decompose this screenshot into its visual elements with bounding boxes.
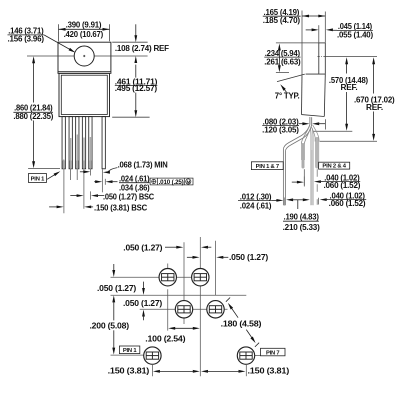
pin7 hole right stick <box>255 355 261 357</box>
extension col2 <box>183 242 185 300</box>
hole centerline (side view) <box>318 56 320 58</box>
svg-text:.150 (3.81) BSC: .150 (3.81) BSC <box>94 203 148 212</box>
row line B (mid reference) <box>111 294 247 296</box>
dimension .200 <box>113 301 115 321</box>
lead 3 (front view) <box>76 117 79 169</box>
svg-text:.010 (.25): .010 (.25) <box>159 180 184 186</box>
extension col4 <box>215 241 217 295</box>
vertical centerline col3 <box>199 237 201 376</box>
hole pin 3 <box>175 301 192 318</box>
svg-text:.156 (3.96): .156 (3.96) <box>8 35 45 44</box>
top line extension (left of tab) <box>276 42 319 44</box>
lead pins (side view, near straight) <box>309 128 312 205</box>
dimension .050 BSC lead pitch <box>70 195 78 197</box>
hole centerline <box>27 55 148 57</box>
PIN 1 & 7 label <box>251 162 283 170</box>
dimension .190/.210 lead span <box>286 198 293 201</box>
lead pins 2&4 (thick gray, behind) <box>315 139 319 166</box>
svg-text:.150 (3.81): .150 (3.81) <box>108 366 150 375</box>
svg-text:.495 (12.57): .495 (12.57) <box>115 84 158 93</box>
side view tab (metal) <box>319 42 326 44</box>
front view body inner molding line <box>61 75 107 114</box>
svg-text:7° TYP.: 7° TYP. <box>275 92 300 101</box>
lead pins 3&5 (side view, middle) <box>302 126 310 161</box>
lead pins 1&7 (side view, most bent) <box>283 125 310 206</box>
hole pin 7 <box>237 347 254 364</box>
dimension .670 REF <box>373 63 375 94</box>
svg-text:PIN 1: PIN 1 <box>123 348 137 354</box>
svg-text:.100 (2.54): .100 (2.54) <box>145 334 186 343</box>
dimension .150 left <box>151 364 153 376</box>
dimension .040/.060 second <box>317 198 319 205</box>
dimension .024/.034 lead width <box>94 181 97 183</box>
svg-text:.880 (22.35): .880 (22.35) <box>13 112 53 121</box>
extension col1 stub above hole <box>167 264 169 270</box>
dimension .100 col1-col3 <box>174 327 195 329</box>
svg-text:.190 (4.83): .190 (4.83) <box>284 213 320 222</box>
extension col1 below hole <box>167 289 169 330</box>
tab/body junction line <box>58 71 111 73</box>
row line A (top row centerline) <box>111 276 209 278</box>
svg-text:PIN 1: PIN 1 <box>31 177 45 183</box>
svg-text:.024 (.61): .024 (.61) <box>240 202 272 211</box>
svg-text:.050 (1.27): .050 (1.27) <box>123 299 163 308</box>
front view body outline <box>59 73 110 116</box>
lead 7 (front view) <box>102 117 105 169</box>
dimension .390/.420 tab width <box>58 24 60 41</box>
svg-text:PIN 1 & 7: PIN 1 & 7 <box>256 164 279 170</box>
svg-text:.034 (.86): .034 (.86) <box>119 183 150 192</box>
dimension .150 BSC <box>49 206 58 208</box>
lead center extension lines below tips <box>63 169 65 213</box>
svg-text:.012 (.30): .012 (.30) <box>240 192 272 201</box>
PIN 2 & 4 label <box>319 162 350 169</box>
svg-text:.060 (1.52): .060 (1.52) <box>329 199 366 208</box>
svg-text:PIN 2 & 4: PIN 2 & 4 <box>322 164 346 170</box>
svg-text:.234 (5.94): .234 (5.94) <box>265 49 301 58</box>
svg-text:.108 (2.74) REF: .108 (2.74) REF <box>115 44 169 53</box>
7-degree draft chamfer line <box>277 74 305 82</box>
hole pin 2 <box>159 269 176 286</box>
svg-text:.050 (1.27): .050 (1.27) <box>97 284 137 293</box>
dimension .234/.261 tab top to body top <box>278 49 280 67</box>
lead 4 (front view) <box>82 117 85 169</box>
dimension .040/.060 first <box>292 181 299 183</box>
svg-text:.185 (4.70): .185 (4.70) <box>263 16 301 25</box>
dimension .050 col3-col4 <box>187 256 194 258</box>
svg-text:.420 (10.67): .420 (10.67) <box>64 30 104 39</box>
PIN 7 label (land) <box>261 348 286 356</box>
row line C (middle row centerline) <box>140 308 228 310</box>
svg-text:.210 (5.33): .210 (5.33) <box>283 223 321 232</box>
lead 5 (front view) <box>89 117 92 169</box>
extension below pins 3&5 <box>303 169 305 185</box>
dimension .180 diagonal <box>226 298 230 302</box>
hole pin 5 <box>207 301 224 318</box>
svg-text:.055 (1.40): .055 (1.40) <box>337 31 374 40</box>
svg-text:.261 (6.63): .261 (6.63) <box>264 58 301 67</box>
svg-text:.050 (1.27) BSC: .050 (1.27) BSC <box>103 193 155 202</box>
svg-text:.060 (1.52): .060 (1.52) <box>324 181 361 190</box>
svg-text:.200 (5.08): .200 (5.08) <box>90 322 130 331</box>
svg-text:.150 (3.81): .150 (3.81) <box>248 366 290 375</box>
mounting hole <box>74 46 94 66</box>
feature control frame <box>150 178 193 185</box>
bottom row line <box>111 354 145 356</box>
hole pin 4 <box>192 269 209 286</box>
svg-text:M: M <box>186 180 190 185</box>
lead bend ref line 2 <box>320 140 377 142</box>
svg-text:.390 (9.91): .390 (9.91) <box>66 21 102 30</box>
dimension .150 right <box>245 364 247 376</box>
svg-text:REF.: REF. <box>366 103 383 112</box>
dimension .461/.495 hole CL to body bottom <box>112 116 149 118</box>
lead stem at body exit <box>309 117 311 125</box>
PIN 1 label (land) <box>119 346 139 354</box>
lead 1 (front view) <box>62 117 65 169</box>
extension line above tab back <box>324 12 326 43</box>
svg-text:PIN 7: PIN 7 <box>266 350 280 356</box>
dimension .045/.055 tab thickness <box>318 25 320 43</box>
extension line body front face <box>301 11 303 75</box>
svg-text:.045 (1.14): .045 (1.14) <box>338 22 373 31</box>
hole center mark <box>83 55 85 57</box>
dimension .108 REF tab-top to hole CL <box>112 41 147 43</box>
lead bend ref line 1 <box>314 130 353 132</box>
svg-text:.050 (1.27): .050 (1.27) <box>123 243 163 252</box>
svg-text:.120 (3.05): .120 (3.05) <box>262 125 299 134</box>
svg-text:.050 (1.27): .050 (1.27) <box>229 253 269 262</box>
svg-text:REF.: REF. <box>341 83 358 92</box>
svg-text:.068 (1.73) MIN: .068 (1.73) MIN <box>118 161 169 170</box>
side view body <box>306 73 326 75</box>
front view mounting tab outline <box>58 42 111 73</box>
dimension .570 REF <box>346 63 348 74</box>
PIN 1 label (front view) <box>28 174 46 183</box>
dimension .165/.185 body thickness <box>302 15 325 17</box>
lead 2 (front view) <box>69 117 72 169</box>
hidden lead pins 2&4 (dashed) <box>316 169 318 205</box>
svg-text:.180 (4.58): .180 (4.58) <box>221 319 262 328</box>
hole pin 1 <box>144 347 161 364</box>
